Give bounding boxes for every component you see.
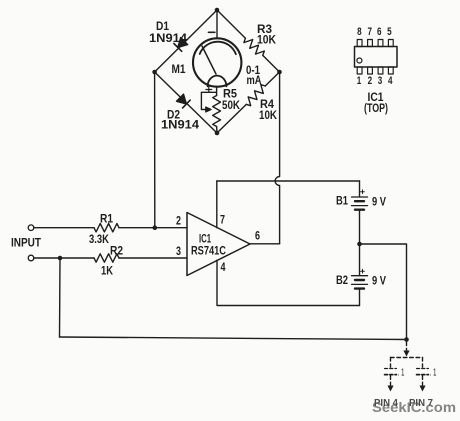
- wire V+ supply line to B1: [217, 180, 360, 182]
- svg-text:2: 2: [368, 75, 373, 87]
- wire bridge edge bottom-right upper part: [265, 72, 279, 86]
- svg-text:4: 4: [388, 75, 393, 87]
- IC1 DIP package body: [355, 47, 398, 68]
- IC1 DIP pin 3 lead: [378, 67, 383, 74]
- node bottom of bridge: [215, 131, 220, 136]
- wire meter bottom to R5: [216, 86, 218, 95]
- svg-text:7: 7: [368, 26, 373, 38]
- wire B1 minus to center tap: [359, 211, 361, 244]
- diode D1: [174, 38, 188, 52]
- svg-text:mA: mA: [247, 73, 262, 87]
- wire bridge edge top-right upper part: [217, 10, 245, 38]
- svg-text:1: 1: [357, 75, 362, 87]
- svg-text:3: 3: [176, 244, 181, 258]
- wire dashed from ground junction down: [406, 342, 408, 351]
- R5 wiper arrowhead: [206, 107, 211, 112]
- svg-text:R2: R2: [110, 244, 123, 258]
- svg-text:INPUT: INPUT: [11, 236, 42, 250]
- input terminal bottom: [28, 255, 34, 261]
- meter minus polarity mark: [209, 31, 215, 33]
- node left of bridge: [152, 70, 157, 75]
- svg-text:PIN 7: PIN 7: [409, 397, 433, 409]
- battery B1: [352, 190, 368, 210]
- resistor R3: [244, 38, 264, 55]
- wire R1 to op-amp pin 2: [119, 227, 187, 229]
- wire B1 top stub: [359, 181, 361, 197]
- svg-text:50K: 50K: [222, 98, 240, 112]
- wire input bottom to R2: [34, 257, 94, 259]
- svg-text:4: 4: [221, 260, 226, 274]
- svg-text:6: 6: [377, 26, 382, 38]
- IC1 DIP pin 1 lead: [357, 67, 362, 74]
- wire bottom input down to ground rail: [59, 258, 62, 337]
- wire dashed right branch lower: [422, 376, 424, 385]
- battery B2: [352, 269, 368, 288]
- wire bridge edge bottom-left (left node to bottom node, carries D2): [155, 72, 217, 133]
- arrowhead to PIN 7: [419, 386, 425, 392]
- node junction R1 line / bridge left: [153, 225, 158, 230]
- wire B2 bottom stub: [359, 290, 361, 306]
- IC1 DIP pin 7 lead: [368, 40, 373, 47]
- arrowhead to PIN 4: [387, 386, 393, 392]
- wire bridge edge top-left (top node to left node, carries D1): [155, 10, 217, 72]
- svg-text:M1: M1: [172, 62, 186, 76]
- svg-text:1N914: 1N914: [149, 31, 187, 45]
- wire ground rail bottom: [60, 337, 407, 340]
- wire dashed right branch upper: [422, 358, 424, 368]
- svg-text:RS741C: RS741C: [191, 244, 226, 258]
- svg-text:. 1: . 1: [398, 368, 405, 379]
- wire left node down to inverting input line: [154, 72, 156, 228]
- meter M1 body circle: [193, 38, 241, 86]
- svg-text:7: 7: [220, 213, 225, 227]
- R5 wiper arm wire: [201, 92, 216, 109]
- dashed bypass network wires: [391, 342, 423, 385]
- meter M1 pivot bump: [208, 76, 227, 87]
- wire bridge edge top-right lower part: [263, 55, 280, 72]
- node ground rail right junction: [404, 337, 409, 342]
- resistor R4: [246, 85, 265, 106]
- svg-text:2: 2: [176, 214, 181, 228]
- svg-text:10K: 10K: [257, 33, 276, 47]
- svg-text:(TOP): (TOP): [364, 101, 388, 115]
- svg-text:5: 5: [387, 26, 392, 38]
- meter M1 scale arc: [200, 42, 236, 55]
- capacitor C1 plates (left .1): [385, 369, 397, 375]
- wire dashed left branch upper: [390, 358, 392, 368]
- IC1 DIP pin 5 lead: [388, 40, 393, 47]
- svg-text:B1: B1: [336, 194, 348, 208]
- node top of bridge: [215, 8, 220, 13]
- node battery center tap: [357, 242, 362, 247]
- potentiometer R5 body: [213, 96, 221, 127]
- node right of bridge: [277, 70, 282, 75]
- svg-text:1N914: 1N914: [161, 118, 199, 132]
- svg-text:8: 8: [357, 26, 362, 38]
- capacitor C2 plates (right .1): [417, 369, 429, 375]
- svg-text:9 V: 9 V: [372, 195, 386, 209]
- resistor R2: [94, 254, 119, 262]
- IC1 DIP pin 4 lead: [388, 67, 393, 74]
- IC1 DIP pin 8 lead: [357, 40, 362, 47]
- svg-text:3: 3: [378, 75, 383, 87]
- svg-text:R1: R1: [100, 212, 113, 226]
- wire op-amp pin 4 down and right to B2 minus: [217, 260, 360, 305]
- wire input top to R1: [34, 227, 94, 229]
- wire bridge edge bottom-right lower part: [217, 104, 246, 133]
- arrowhead into split: [403, 351, 409, 357]
- resistor R1: [94, 224, 119, 232]
- svg-text:. 1: . 1: [430, 368, 437, 379]
- wire center tap down to B2: [359, 244, 361, 276]
- svg-text:10K: 10K: [259, 108, 277, 122]
- wire R5 bottom to bottom node: [216, 127, 218, 134]
- svg-text:B2: B2: [336, 273, 348, 287]
- wire bridge right node down with hop over V+ line: [275, 72, 280, 244]
- svg-text:1K: 1K: [101, 264, 113, 278]
- svg-text:9 V: 9 V: [372, 274, 386, 288]
- wire op-amp pin 7 up to V+ line: [216, 181, 218, 228]
- svg-text:3.3K: 3.3K: [89, 232, 109, 246]
- wire op-amp output pin 6: [250, 243, 280, 245]
- svg-text:PIN 4: PIN 4: [374, 397, 398, 409]
- wire stub top node to meter: [216, 10, 218, 39]
- svg-text:6: 6: [255, 229, 260, 243]
- op-amp U1 triangle: [187, 213, 250, 276]
- input terminal top: [28, 225, 34, 231]
- meter plus polarity mark: [206, 87, 212, 93]
- diode D2: [177, 94, 191, 108]
- node junction bottom input / ground rail: [58, 256, 63, 261]
- wire center tap to right drop: [360, 244, 407, 340]
- wire dashed horizontal split: [391, 357, 423, 359]
- wire R2 to op-amp pin 3: [119, 257, 187, 259]
- IC1 DIP pin 2 lead: [368, 67, 373, 74]
- meter M1 needle: [202, 46, 216, 74]
- IC1 DIP pin 6 lead: [378, 40, 383, 47]
- wire dashed left branch lower: [390, 376, 392, 385]
- IC1 pin-1 indicator circle: [357, 58, 362, 63]
